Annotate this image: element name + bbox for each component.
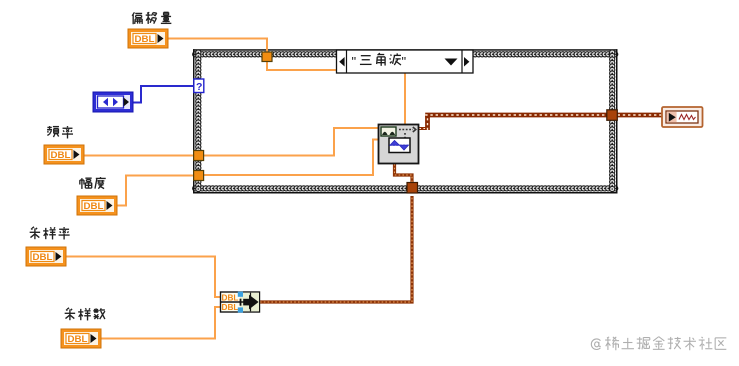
tunnel: frequency input (left border) [194,151,204,161]
svg-text:DBL: DBL [68,334,89,344]
wire enum selector (blue) [133,86,194,103]
watermark 稀土掘金 [591,337,726,351]
case selector label "三角波" [337,50,474,73]
control enum (wave type) [93,92,133,112]
wire offset (偏移量) to VI top [168,39,405,126]
svg-text:DBL: DBL [51,150,72,160]
control 幅度 (DBL) [77,177,117,215]
wire waveform out: VI to chart (thick brown) [419,115,664,130]
bundle node (build cluster) [221,292,260,313]
wire sample count (采样数) to bundle [101,307,221,339]
selector tunnel ? [194,79,204,93]
tunnel: offset input (top border) [262,52,272,62]
subVI: basic function generator [379,125,419,164]
wire sample rate (采样率) to bundle [66,257,221,298]
wire sampling-info cluster: bundle to VI (brown dotted) [259,163,412,302]
indicator: waveform chart [662,107,703,127]
tunnel: sampling info (bottom border, brown) [407,183,418,194]
control 采样数 (DBL) [61,308,105,348]
svg-text:DBL: DBL [33,252,54,262]
svg-text:": " [352,54,357,69]
wire frequency (频率) to VI [84,128,379,156]
control 偏移量 (DBL) [128,12,171,48]
svg-text:DBL: DBL [222,293,239,303]
svg-text:DBL: DBL [84,201,105,211]
control 采样率 (DBL) [26,227,70,266]
svg-text:DBL: DBL [135,34,156,44]
case structure border [193,49,618,193]
tunnel: waveform out (right border, brown) [607,110,618,121]
tunnel: amplitude input (left border) [194,171,204,181]
wire amplitude (幅度) to VI [117,140,379,206]
control 频率 (DBL) [44,126,84,164]
svg-text:?: ? [196,81,202,93]
svg-text:DBL: DBL [222,302,239,312]
svg-text:": " [402,54,407,69]
